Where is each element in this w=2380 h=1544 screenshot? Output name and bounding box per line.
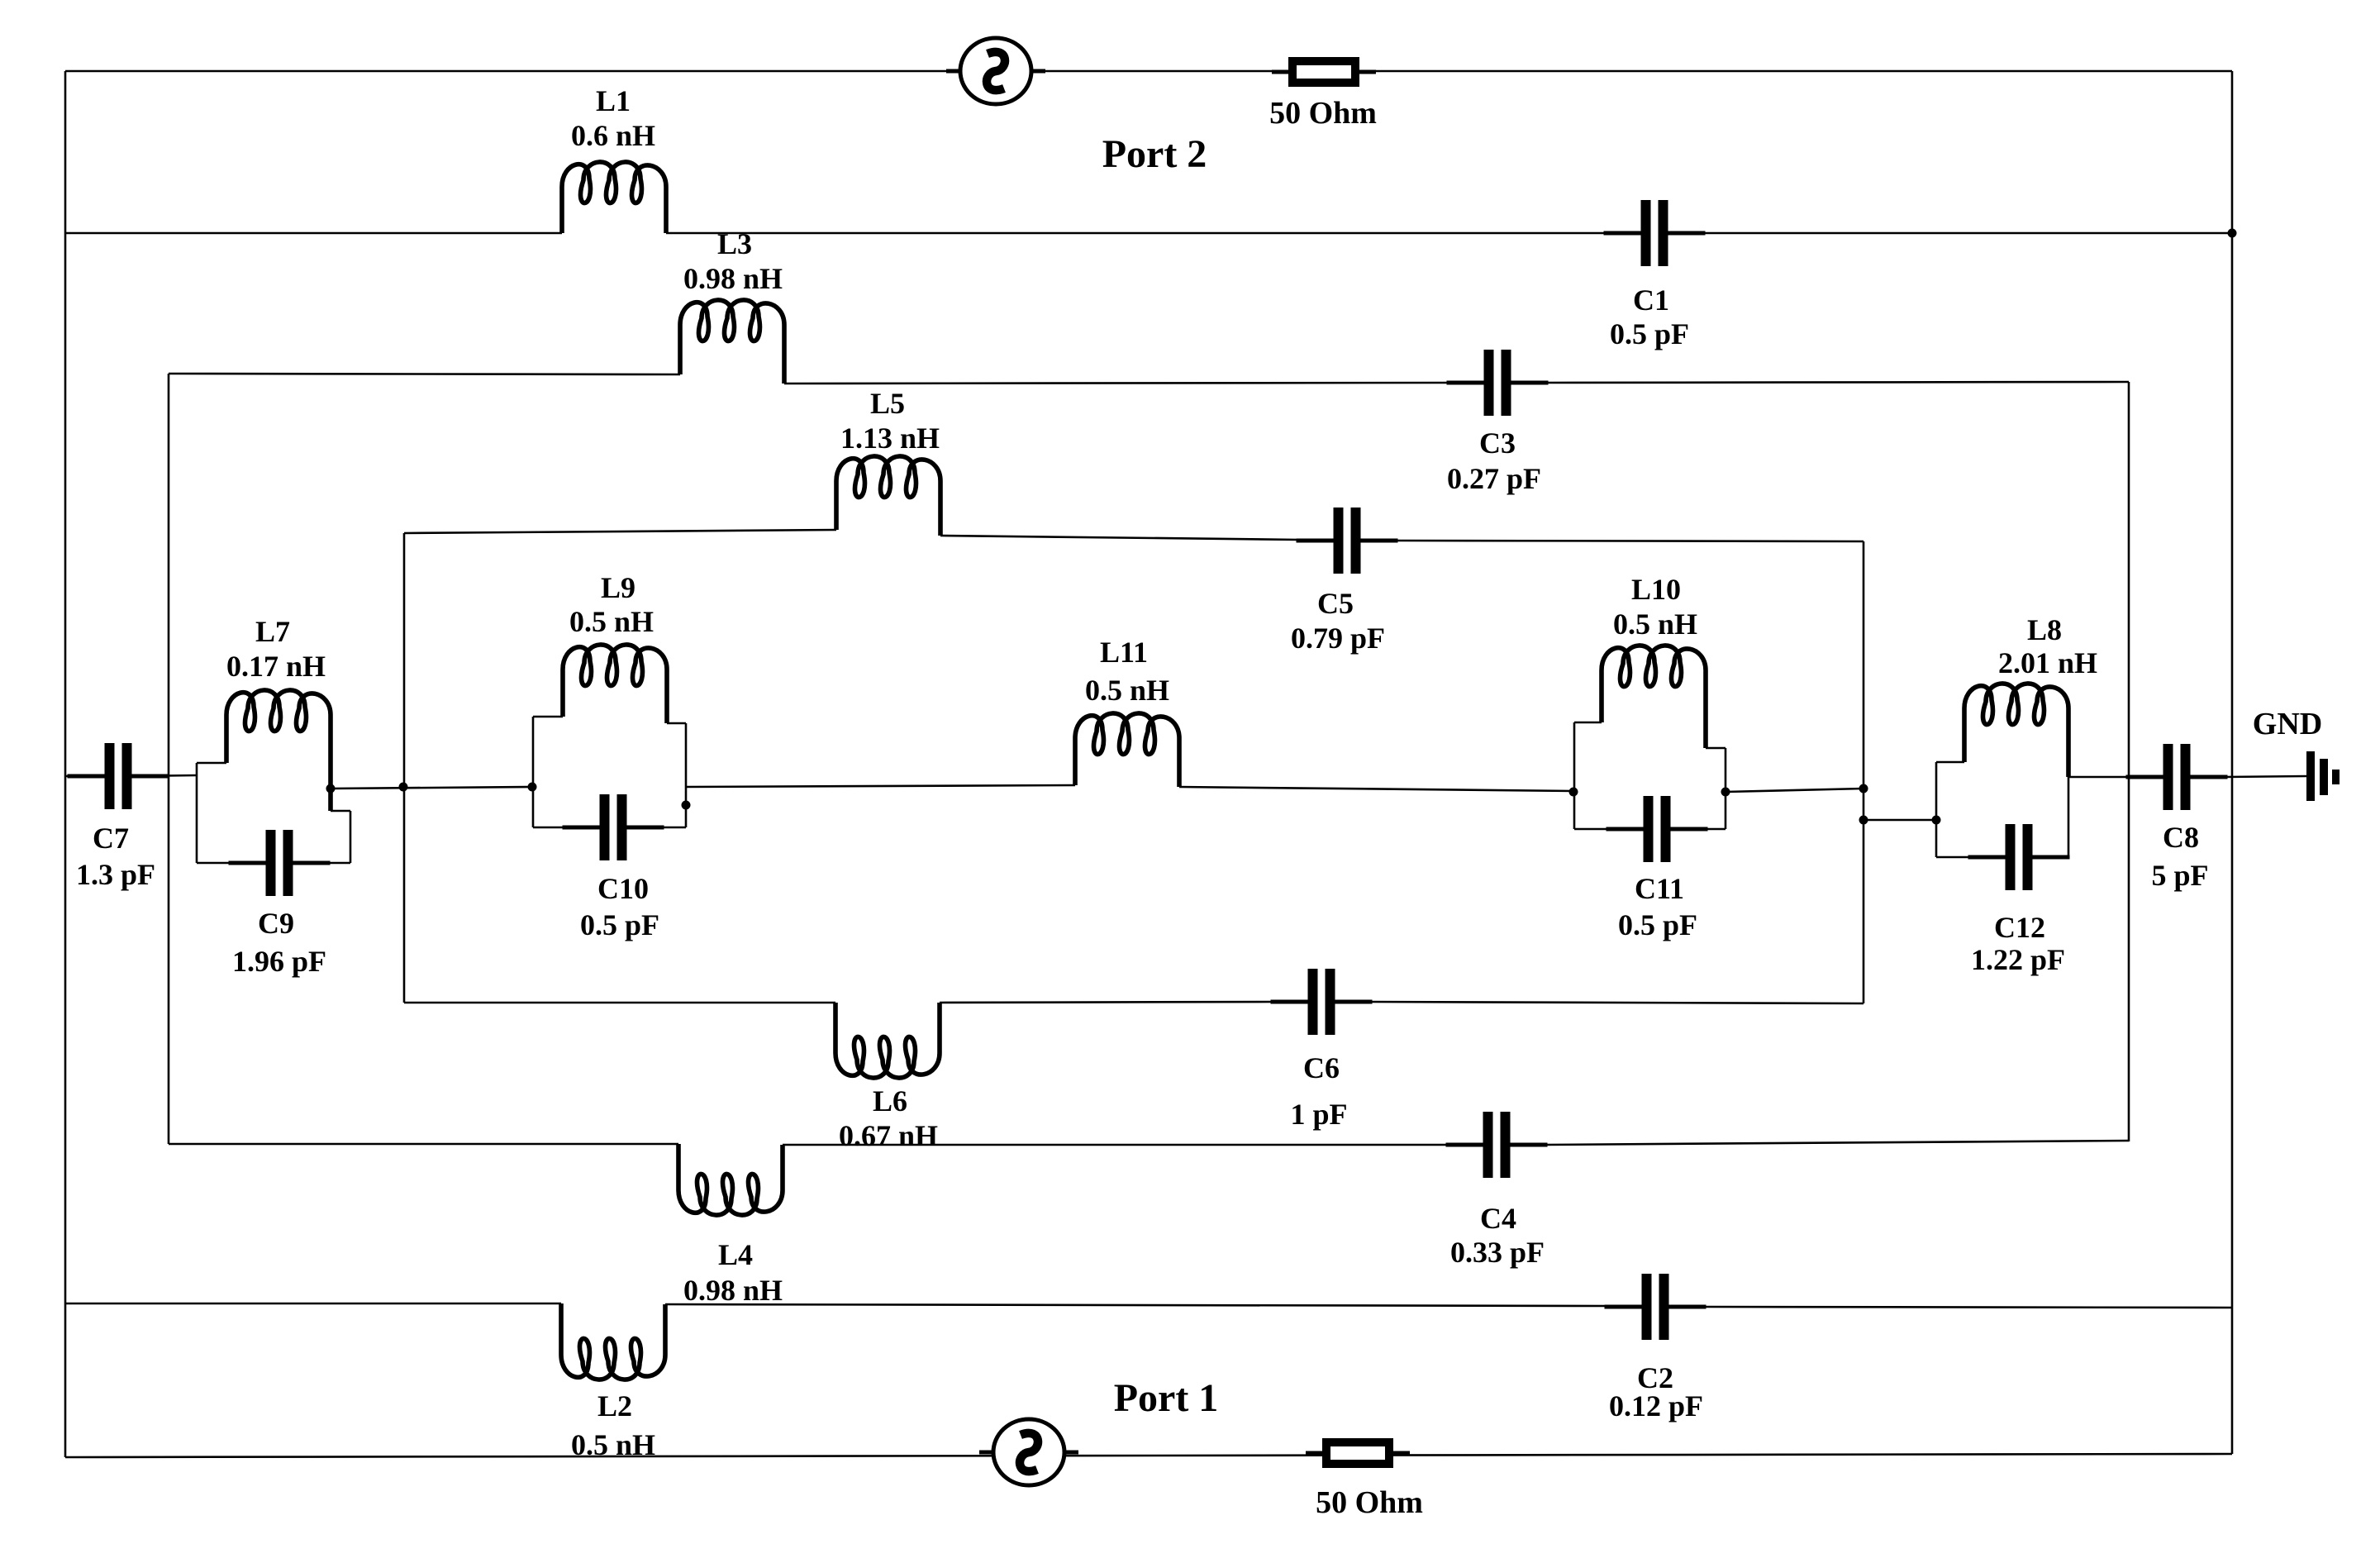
svg-text:L9: L9 bbox=[601, 571, 635, 604]
svg-text:1 pF: 1 pF bbox=[1290, 1098, 1347, 1131]
svg-text:C12: C12 bbox=[1994, 911, 2045, 944]
svg-text:C10: C10 bbox=[597, 872, 649, 905]
svg-text:0.5 pF: 0.5 pF bbox=[1618, 908, 1697, 941]
svg-text:0.98 nH: 0.98 nH bbox=[683, 262, 783, 295]
svg-text:L5: L5 bbox=[870, 387, 905, 420]
svg-text:0.27 pF: 0.27 pF bbox=[1447, 462, 1541, 495]
svg-text:0.5 pF: 0.5 pF bbox=[1610, 317, 1689, 350]
svg-text:L1: L1 bbox=[596, 84, 631, 117]
svg-text:50 Ohm: 50 Ohm bbox=[1269, 96, 1377, 131]
svg-text:C3: C3 bbox=[1479, 427, 1516, 460]
svg-text:0.5 pF: 0.5 pF bbox=[580, 908, 659, 941]
svg-text:50 Ohm: 50 Ohm bbox=[1316, 1485, 1423, 1520]
svg-text:C11: C11 bbox=[1635, 872, 1684, 905]
svg-text:Port 1: Port 1 bbox=[1114, 1376, 1219, 1420]
svg-text:2.01 nH: 2.01 nH bbox=[1998, 646, 2097, 679]
svg-text:0.98 nH: 0.98 nH bbox=[683, 1274, 783, 1307]
svg-text:C4: C4 bbox=[1480, 1202, 1516, 1235]
svg-text:Port 2: Port 2 bbox=[1102, 132, 1207, 176]
svg-text:1.22 pF: 1.22 pF bbox=[1971, 943, 2065, 976]
svg-text:L10: L10 bbox=[1631, 573, 1681, 606]
svg-text:C5: C5 bbox=[1317, 587, 1354, 620]
svg-text:C1: C1 bbox=[1633, 284, 1669, 317]
svg-text:0.33 pF: 0.33 pF bbox=[1450, 1236, 1545, 1269]
svg-text:0.5 nH: 0.5 nH bbox=[569, 605, 654, 638]
svg-text:C9: C9 bbox=[258, 907, 294, 940]
svg-text:C7: C7 bbox=[93, 822, 129, 855]
svg-text:L6: L6 bbox=[873, 1084, 907, 1117]
svg-text:GND: GND bbox=[2253, 707, 2322, 741]
svg-text:C6: C6 bbox=[1303, 1051, 1340, 1084]
svg-text:1.13 nH: 1.13 nH bbox=[840, 422, 940, 455]
svg-text:0.5 nH: 0.5 nH bbox=[571, 1428, 655, 1461]
svg-text:0.5 nH: 0.5 nH bbox=[1613, 608, 1697, 641]
svg-text:0.6 nH: 0.6 nH bbox=[571, 119, 655, 152]
svg-text:L4: L4 bbox=[718, 1238, 753, 1271]
svg-text:L2: L2 bbox=[597, 1389, 632, 1422]
svg-text:L7: L7 bbox=[255, 615, 290, 648]
svg-text:0.67 nH: 0.67 nH bbox=[839, 1119, 938, 1152]
svg-text:L8: L8 bbox=[2027, 613, 2062, 646]
svg-text:0.17 nH: 0.17 nH bbox=[226, 650, 326, 683]
svg-text:1.96 pF: 1.96 pF bbox=[232, 945, 326, 978]
svg-text:C8: C8 bbox=[2163, 821, 2199, 854]
svg-text:0.79 pF: 0.79 pF bbox=[1291, 622, 1385, 655]
svg-text:L3: L3 bbox=[717, 227, 752, 260]
svg-text:5 pF: 5 pF bbox=[2151, 859, 2208, 892]
svg-text:0.5 nH: 0.5 nH bbox=[1085, 674, 1169, 707]
svg-text:L11: L11 bbox=[1100, 636, 1148, 669]
svg-text:1.3 pF: 1.3 pF bbox=[76, 858, 155, 891]
svg-text:0.12 pF: 0.12 pF bbox=[1609, 1389, 1703, 1422]
